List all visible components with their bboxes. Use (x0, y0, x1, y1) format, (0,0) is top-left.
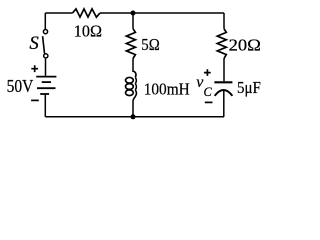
svg-text:50V: 50V (7, 76, 34, 96)
svg-text:10Ω: 10Ω (74, 22, 102, 41)
svg-text:C: C (204, 85, 213, 99)
svg-text:S: S (29, 33, 39, 54)
svg-text:5μF: 5μF (237, 78, 261, 97)
svg-text:5Ω: 5Ω (141, 35, 160, 54)
svg-text:20Ω: 20Ω (229, 36, 261, 55)
svg-text:100mH: 100mH (144, 79, 190, 98)
